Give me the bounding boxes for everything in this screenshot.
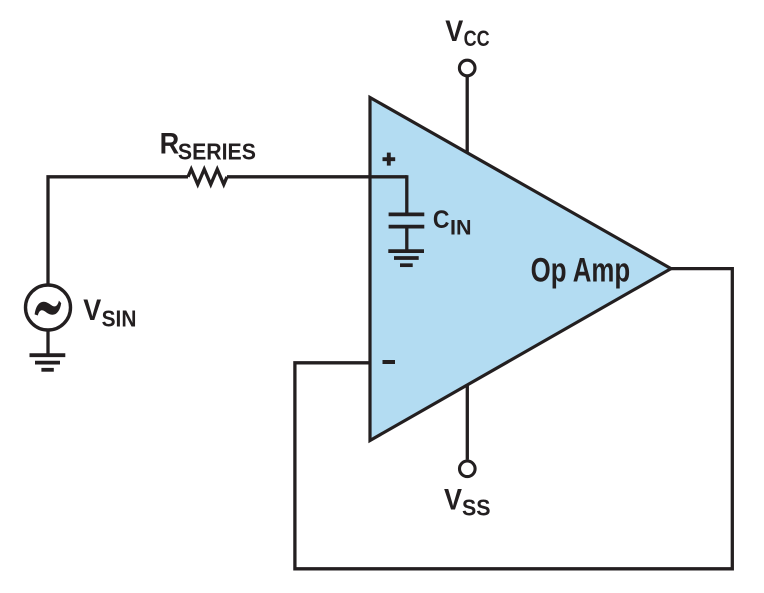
wire source to ground	[46, 330, 49, 355]
wire input left segment	[48, 177, 188, 284]
wire capacitor to ground	[405, 228, 408, 251]
feedback wire from output to - input	[295, 269, 732, 569]
svg-text:V: V	[444, 484, 462, 517]
VSS terminal circle	[460, 461, 476, 477]
svg-text:SERIES: SERIES	[178, 139, 256, 165]
VCC terminal circle	[459, 60, 475, 76]
voltage source VSIN	[26, 285, 71, 330]
ground (source)	[30, 353, 66, 357]
svg-text:V: V	[83, 294, 101, 327]
svg-text:C: C	[433, 206, 450, 234]
svg-text:SIN: SIN	[102, 305, 137, 331]
sine symbol	[35, 301, 62, 316]
svg-text:V: V	[445, 15, 463, 48]
wire + input to capacitor	[405, 175, 408, 212]
ground (capacitor)	[388, 249, 424, 253]
wire resistor to op-amp + input	[227, 175, 407, 178]
svg-text:R: R	[160, 128, 180, 161]
plus input symbol	[383, 157, 396, 161]
svg-text:Op Amp: Op Amp	[531, 251, 631, 289]
capacitor CIN	[389, 213, 425, 217]
wire VCC to op-amp	[466, 77, 469, 153]
minus input symbol	[383, 360, 396, 364]
op-amp U1	[370, 98, 671, 441]
svg-text:CC: CC	[464, 26, 490, 51]
svg-text:IN: IN	[450, 215, 472, 239]
wire op-amp to VSS	[466, 384, 469, 460]
resistor RSERIES	[188, 169, 227, 184]
svg-text:SS: SS	[462, 495, 491, 521]
